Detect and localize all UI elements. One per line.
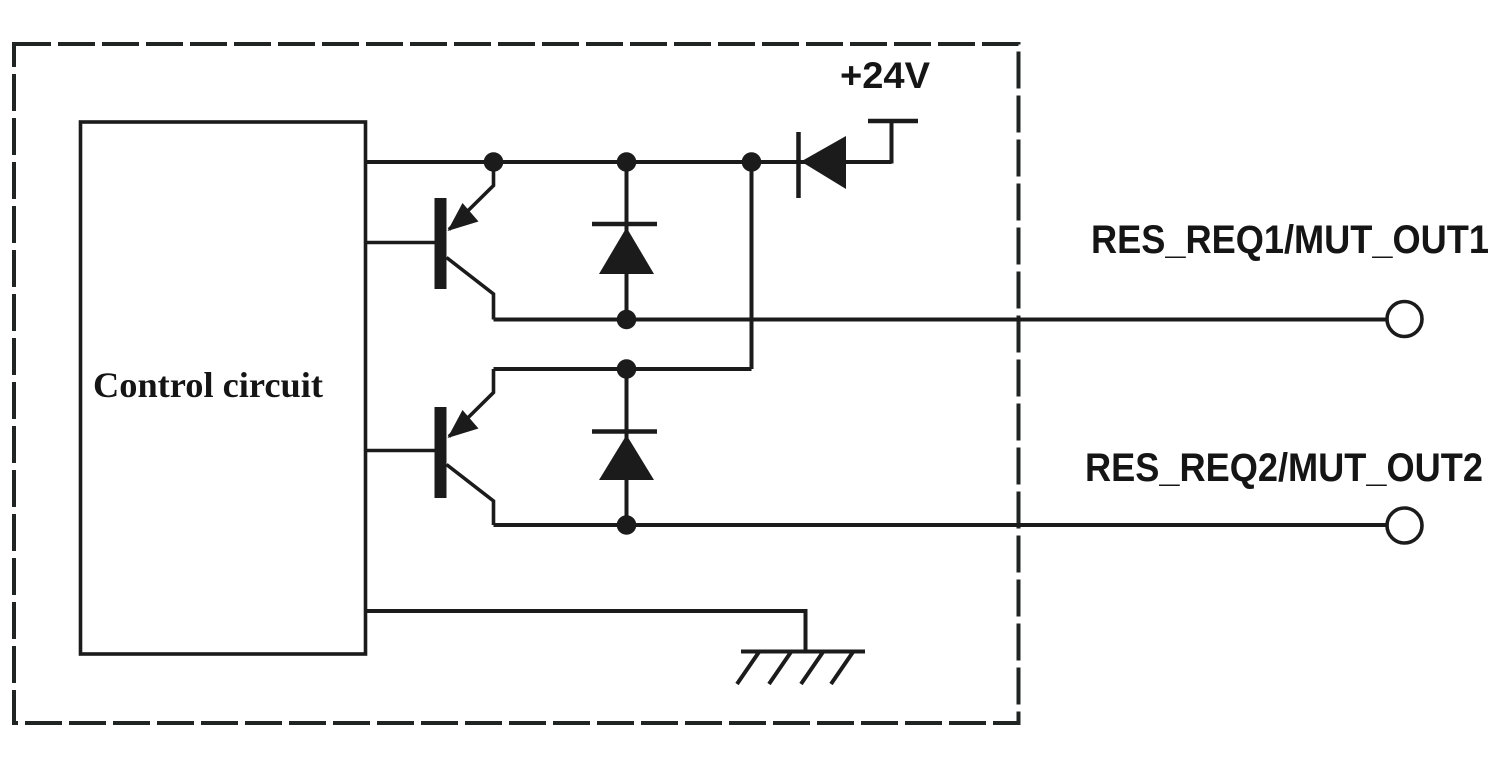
- wire: Q2 base from control circuit: [366, 449, 435, 453]
- transistor Q1 collector lead: [449, 162, 494, 230]
- node: rail junction C (feed to Q2): [742, 152, 762, 172]
- diode D1 connecting wire (vertical): [625, 162, 629, 320]
- diode D1 (zener to output 1, pointing up): [599, 228, 654, 275]
- wire: RES_REQ1 output line: [494, 318, 1388, 322]
- wire: RES_REQ2 output line: [494, 523, 1388, 527]
- ground bar: [741, 650, 865, 654]
- diode D2 connecting wire (vertical): [625, 369, 629, 525]
- terminal: RES_REQ1/MUT_OUT1 output: [1387, 302, 1422, 337]
- control circuit box: [81, 122, 366, 654]
- wire: +24V supply rail (top horizontal): [366, 160, 892, 164]
- wire: Q1 base from control circuit: [366, 241, 435, 245]
- wire: rail drop to Q2 collector net: [750, 162, 754, 369]
- dashed enclosure border: [14, 44, 1019, 723]
- node: D2 cathode junction: [617, 359, 637, 379]
- transistor Q2 emitter lead: [447, 465, 494, 526]
- transistor Q2 base bar: [435, 407, 447, 498]
- node: rail junction A (collector Q1): [484, 152, 504, 172]
- transistor Q1 emitter lead: [447, 258, 494, 320]
- ground hatch 4: [831, 652, 853, 684]
- wire: Q2 collector net (horizontal): [494, 367, 752, 371]
- +24V supply bar symbol: [868, 119, 918, 124]
- svg-text:RES_REQ2/MUT_OUT2: RES_REQ2/MUT_OUT2: [1085, 446, 1483, 490]
- node: D2 anode on output 2: [617, 515, 637, 535]
- svg-text:RES_REQ1/MUT_OUT1: RES_REQ1/MUT_OUT1: [1091, 218, 1489, 262]
- node: D1 anode on output 1: [617, 310, 637, 330]
- ground hatch 3: [801, 652, 823, 684]
- svg-text:+24V: +24V: [840, 55, 930, 96]
- diode D3 cathode bar: [796, 132, 801, 198]
- transistor Q2 collector lead: [449, 369, 494, 437]
- diode D2 cathode bar: [592, 429, 657, 434]
- transistor Q2 emitter arrow (PNP): [448, 410, 479, 438]
- node: rail junction B (diode D1): [617, 152, 637, 172]
- transistor Q1 base bar: [435, 198, 447, 289]
- diode D2 (zener to output 2, pointing up): [599, 435, 654, 480]
- ground hatch 2: [769, 652, 791, 684]
- diode D3 (reverse protection, pointing left): [801, 136, 846, 189]
- wire: D3 anode to +24V tap: [890, 121, 894, 164]
- ground hatch 1: [737, 652, 759, 684]
- terminal: RES_REQ2/MUT_OUT2 output: [1387, 508, 1422, 543]
- wire: ground line from control circuit: [366, 611, 806, 652]
- svg-text:Control circuit: Control circuit: [93, 365, 323, 405]
- transistor Q1 emitter arrow (PNP): [448, 203, 479, 231]
- diode D1 cathode bar: [592, 222, 657, 227]
